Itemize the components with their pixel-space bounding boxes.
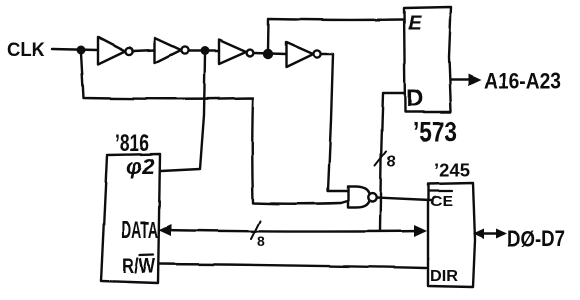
svg-text:A16-A23: A16-A23 (484, 69, 561, 94)
inverter U2 (155, 38, 181, 63)
svg-text:φ2: φ2 (126, 154, 156, 179)
svg-text:E: E (408, 13, 422, 35)
wire U2 to U3 (189, 50, 219, 52)
inverter U3 bubble (247, 50, 254, 57)
svg-text:’816: ’816 (115, 130, 149, 157)
wire U3 to U4 (254, 53, 286, 54)
arrowhead left of D0-D7 (473, 229, 484, 239)
svg-text:8: 8 (257, 233, 265, 249)
nand bubble (368, 193, 376, 201)
svg-text:DØ-D7: DØ-D7 (507, 226, 565, 251)
inverter U2 bubble (181, 46, 188, 53)
wire NAND output to '245 CE pin (377, 198, 431, 201)
overline on CE (429, 190, 452, 192)
svg-text:’573: ’573 (413, 116, 457, 147)
transceiver U8 '245 body (428, 183, 475, 287)
bus slash /8 on data bus (251, 221, 260, 239)
wire phi2 junction down to '816 phi2 pin (161, 54, 205, 171)
inverter U4 (286, 42, 313, 67)
latch U5 '573 body (404, 7, 451, 112)
wire '573 output arrow (451, 79, 476, 81)
svg-text:CLK: CLK (7, 40, 45, 61)
wire R/W to '245 DIR pin (159, 264, 426, 268)
wire '573 D pin to data bus tap (380, 93, 404, 231)
wire D0-D7 double arrow (476, 232, 504, 234)
wire CLK junction down, across, down to NAND input B (81, 53, 348, 204)
arrowhead right of D0-D7 (496, 229, 507, 239)
inverter U1 bubble (125, 47, 132, 54)
nand gate U7 (348, 187, 370, 208)
arrowhead into DATA (left) (158, 224, 171, 236)
svg-text:CE: CE (430, 193, 453, 210)
arrowhead into '245 (right) (414, 225, 427, 237)
wire E feedback up and over to '573 E pin (268, 19, 404, 52)
svg-text:DIR: DIR (430, 268, 458, 285)
node E feedback junction (263, 49, 273, 59)
inverter U4 bubble (313, 50, 320, 57)
data bus wire DATA to '245 (161, 230, 424, 232)
svg-text:DATA: DATA (121, 217, 158, 244)
svg-text:R/W: R/W (122, 255, 155, 278)
inverter U3 (219, 40, 246, 64)
node CLK junction (77, 46, 86, 55)
svg-text:8: 8 (387, 153, 396, 170)
wire U1 to U2 (133, 50, 155, 51)
inverter U1 (98, 37, 125, 64)
overline on W of R/W (140, 254, 153, 257)
svg-text:’245: ’245 (434, 161, 470, 181)
wire U4 output down to NAND input A (321, 54, 348, 191)
node phi2 junction (201, 47, 210, 56)
wire CLK to inverter chain (52, 49, 98, 50)
cpu U6 '816 body (101, 154, 160, 283)
arrowhead A16-A23 (468, 74, 481, 86)
svg-text:D: D (406, 85, 423, 112)
bus slash /8 on D bus (375, 151, 386, 165)
